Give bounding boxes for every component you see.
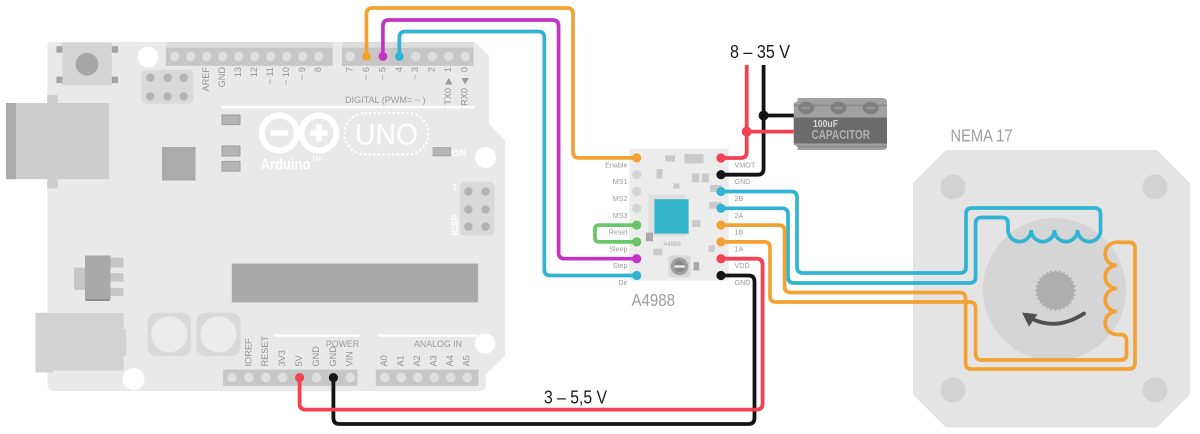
junction node GND xyxy=(759,111,769,121)
mounting hole H1 xyxy=(138,47,159,68)
node pin5 xyxy=(378,52,387,61)
TX RX arrows xyxy=(445,78,452,85)
wire Reset-Sleep green loop xyxy=(595,225,637,242)
svg-text:A1: A1 xyxy=(396,355,406,366)
wire VDD red: Arduino 5V to driver VDD xyxy=(300,259,763,410)
svg-text:Arduino: Arduino xyxy=(261,157,311,174)
pin MS1 xyxy=(632,170,641,179)
wire GND black: driver GND(top) to supply and capacitor xyxy=(721,65,794,175)
svg-text:2: 2 xyxy=(427,67,437,72)
silk line power xyxy=(275,335,360,337)
svg-text:ANALOG IN: ANALOG IN xyxy=(414,339,462,349)
svg-text:2A: 2A xyxy=(735,211,744,220)
svg-text:Dir: Dir xyxy=(618,278,628,287)
svg-text:7: 7 xyxy=(344,67,354,72)
chip A4988 xyxy=(654,199,688,233)
svg-text:~ 3: ~ 3 xyxy=(410,67,420,80)
svg-text:VDD: VDD xyxy=(735,261,750,270)
svg-text:12: 12 xyxy=(249,67,259,77)
wire Dir cyan: Arduino pin4 to driver Dir xyxy=(399,32,637,276)
wire GND bottom black: Arduino GND to driver GND(bottom) xyxy=(333,276,754,425)
screw hole BR xyxy=(1143,378,1168,403)
wire 1A orange: driver 1A to motor coil bottom (inner) xyxy=(721,242,1127,360)
Arduino infinity logo xyxy=(261,116,337,174)
svg-text:8 – 35 V: 8 – 35 V xyxy=(730,42,790,62)
svg-text:1B: 1B xyxy=(735,228,744,237)
mounting hole H2 xyxy=(475,147,496,168)
node GND arduino xyxy=(329,373,338,382)
pin VMOT xyxy=(716,153,725,162)
coil phase-2 cyan scallops xyxy=(1008,230,1101,242)
capacitor C2 (electrolytic) xyxy=(196,313,240,357)
svg-text:~ 11: ~ 11 xyxy=(265,67,275,84)
wire 2B cyan: driver 2B to motor coil right xyxy=(721,192,1101,274)
rotor xyxy=(983,218,1126,361)
regulator VR1 xyxy=(74,256,124,302)
svg-text:5V: 5V xyxy=(294,354,304,366)
header J-DIG1 (digital pins AREF..8) xyxy=(166,42,333,66)
pin GND bottom xyxy=(716,271,725,280)
header J-ANALOG xyxy=(376,370,479,386)
driver pin labels right xyxy=(735,160,756,287)
screw hole TL xyxy=(941,175,966,200)
node 5V xyxy=(295,373,304,382)
capacitor C1 (electrolytic) xyxy=(148,313,191,357)
pin VDD xyxy=(716,254,725,263)
svg-text:A4988: A4988 xyxy=(663,242,681,248)
pin MS2 xyxy=(632,187,641,196)
svg-text:3V3: 3V3 xyxy=(277,350,287,366)
svg-text:ICSP: ICSP xyxy=(450,214,460,235)
connector ICSP2 (6-pin header right) xyxy=(450,182,495,236)
wire VMOT red: driver VMOT to supply and capacitor xyxy=(721,65,794,158)
svg-text:Step: Step xyxy=(613,261,628,270)
smd parts xyxy=(646,154,722,270)
svg-text:GND: GND xyxy=(217,67,227,88)
svg-text:GND: GND xyxy=(328,346,338,367)
connector J-USB (USB port) xyxy=(6,95,109,188)
connector J-PWR (barrel power jack) xyxy=(36,313,127,373)
node pin6 xyxy=(362,52,371,61)
pin Sleep xyxy=(632,237,641,246)
IC U2 (A4988 driver board) xyxy=(629,149,728,281)
IC X1 (crystal) xyxy=(162,147,196,181)
svg-text:~ 9: ~ 9 xyxy=(297,67,307,80)
board U-ARD (Arduino UNO PCB) xyxy=(48,42,506,391)
pin 2A xyxy=(716,204,725,213)
mounting hole H3 xyxy=(123,368,145,390)
svg-text:RX0: RX0 xyxy=(460,88,470,106)
screw hole TR xyxy=(1143,175,1168,200)
mounting hole H4 xyxy=(475,333,495,353)
switch SW1 (reset button) xyxy=(57,43,119,86)
svg-text:8: 8 xyxy=(313,67,323,72)
silk line analog xyxy=(379,335,477,337)
svg-text:~ 6: ~ 6 xyxy=(361,67,371,80)
svg-text:GND: GND xyxy=(735,177,751,186)
svg-text:GND: GND xyxy=(311,346,321,367)
shaft gear xyxy=(1035,270,1077,312)
svg-text:AREF: AREF xyxy=(201,67,211,92)
svg-text:1: 1 xyxy=(443,67,453,72)
svg-text:MS3: MS3 xyxy=(613,211,628,220)
svg-text:NEMA 17: NEMA 17 xyxy=(951,126,1013,146)
coil phase-1 orange loops xyxy=(1105,242,1117,334)
svg-text:A4: A4 xyxy=(445,355,455,366)
svg-text:RESET: RESET xyxy=(260,335,270,366)
svg-text:A4988: A4988 xyxy=(632,290,676,310)
label UNO badge xyxy=(345,113,429,155)
junction node VMOT xyxy=(742,127,752,137)
silk line top xyxy=(221,106,474,108)
screw hole BL xyxy=(941,378,966,403)
driver pins right xyxy=(716,153,725,280)
svg-text:A0: A0 xyxy=(379,355,389,366)
svg-text:TM: TM xyxy=(312,156,321,163)
svg-text:DIGITAL (PWM= ~ ): DIGITAL (PWM= ~ ) xyxy=(345,95,426,105)
capacitor C3 (100uF electrolytic) xyxy=(791,96,887,151)
node pin4 xyxy=(395,52,404,61)
svg-text:1: 1 xyxy=(453,183,458,193)
capacitor C-smd group (3 small SMD parts) xyxy=(222,115,240,171)
wire Enable orange: Arduino pin6 to driver Enable xyxy=(366,8,637,158)
pin MS3 xyxy=(632,204,641,213)
svg-text:A5: A5 xyxy=(462,355,472,366)
svg-text:UNO: UNO xyxy=(355,119,418,152)
potentiometer xyxy=(669,255,691,277)
pin GND top xyxy=(716,170,725,179)
pin 1B xyxy=(716,221,725,230)
IC U-MCU (ATmega328) xyxy=(232,264,478,303)
pin labels power/analog xyxy=(243,335,471,366)
svg-text:MS1: MS1 xyxy=(613,177,628,186)
svg-text:2B: 2B xyxy=(735,194,744,203)
wire Step magenta: Arduino pin5 to driver Step xyxy=(383,20,637,259)
driver pin labels left xyxy=(605,160,628,287)
rotation arrow xyxy=(1032,314,1084,324)
wire 2A cyan: driver 2A to motor coil left xyxy=(721,208,1008,283)
pin Enable xyxy=(632,153,641,162)
svg-text:TX0: TX0 xyxy=(443,88,453,105)
svg-text:~ 5: ~ 5 xyxy=(377,67,387,80)
pin 1A xyxy=(716,237,725,246)
svg-text:MS2: MS2 xyxy=(613,194,628,203)
svg-text:A3: A3 xyxy=(429,355,439,366)
pin Reset xyxy=(632,221,641,230)
pin 2B xyxy=(716,187,725,196)
driver pins left xyxy=(632,153,641,280)
svg-text:1A: 1A xyxy=(735,244,744,253)
pin Step xyxy=(632,254,641,263)
svg-text:4: 4 xyxy=(394,67,404,72)
pin Dir xyxy=(632,271,641,280)
svg-text:A2: A2 xyxy=(412,355,422,366)
svg-text:0: 0 xyxy=(460,67,470,72)
svg-text:IOREF: IOREF xyxy=(243,338,253,366)
svg-text:3 – 5,5 V: 3 – 5,5 V xyxy=(544,388,607,408)
svg-text:Sleep: Sleep xyxy=(609,244,627,253)
svg-text:ON: ON xyxy=(452,148,466,159)
switch ON label xyxy=(433,148,466,159)
header J-DIG2 (digital pins 7..0) xyxy=(342,42,474,66)
svg-text:GND: GND xyxy=(735,278,751,287)
wire 1B orange: driver 1B to motor coil top (outer) xyxy=(721,225,1135,369)
svg-text:Reset: Reset xyxy=(609,228,628,237)
pin labels digital header xyxy=(201,67,469,106)
svg-text:Enable: Enable xyxy=(605,160,627,169)
svg-text:~ 10: ~ 10 xyxy=(281,67,291,85)
header J-PWRPINS xyxy=(223,370,357,386)
svg-text:VMOT: VMOT xyxy=(735,160,756,169)
motor M1 (NEMA 17 body) xyxy=(913,150,1190,428)
chip pad xyxy=(649,195,687,237)
svg-text:13: 13 xyxy=(233,67,243,77)
svg-text:CAPACITOR: CAPACITOR xyxy=(812,128,871,142)
connector ICSP1 (6-pin header near USB) xyxy=(141,70,193,104)
svg-text:VIN: VIN xyxy=(345,351,355,366)
